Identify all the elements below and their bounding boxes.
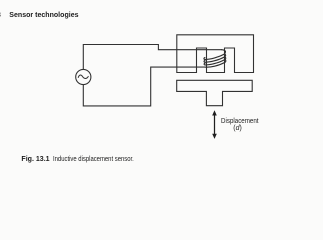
svg-text:Fig. 13.1: Fig. 13.1 (21, 156, 49, 163)
svg-text:(d): (d) (233, 125, 241, 132)
wire: bottom lead from AC source to coil (83, 67, 205, 106)
coil lead-in curl from top wire (222, 50, 226, 54)
svg-text:Sensor technologies: Sensor technologies (9, 12, 78, 19)
wire: top lead from AC source to coil (with jog down at x=158.5) (83, 45, 221, 70)
armature (T-shaped plunger) (177, 80, 253, 105)
coil turn 1 (204, 54, 225, 60)
svg-text:8: 8 (0, 12, 1, 19)
E-core (three legs, slots open at bottom) (177, 35, 254, 73)
coil turn 4 (205, 60, 226, 68)
inductor coil L1 wound on centre leg (204, 50, 226, 67)
svg-text:Inductive displacement sensor.: Inductive displacement sensor. (53, 156, 134, 163)
page background (0, 0, 323, 170)
coil turn 2 (204, 54, 226, 62)
sine symbol inside source (78, 75, 88, 78)
displacement arrow (double-headed) (212, 110, 217, 139)
coil turn 3 (204, 57, 226, 65)
svg-text:Displacement: Displacement (221, 118, 259, 125)
AC source V1 (76, 69, 91, 84)
